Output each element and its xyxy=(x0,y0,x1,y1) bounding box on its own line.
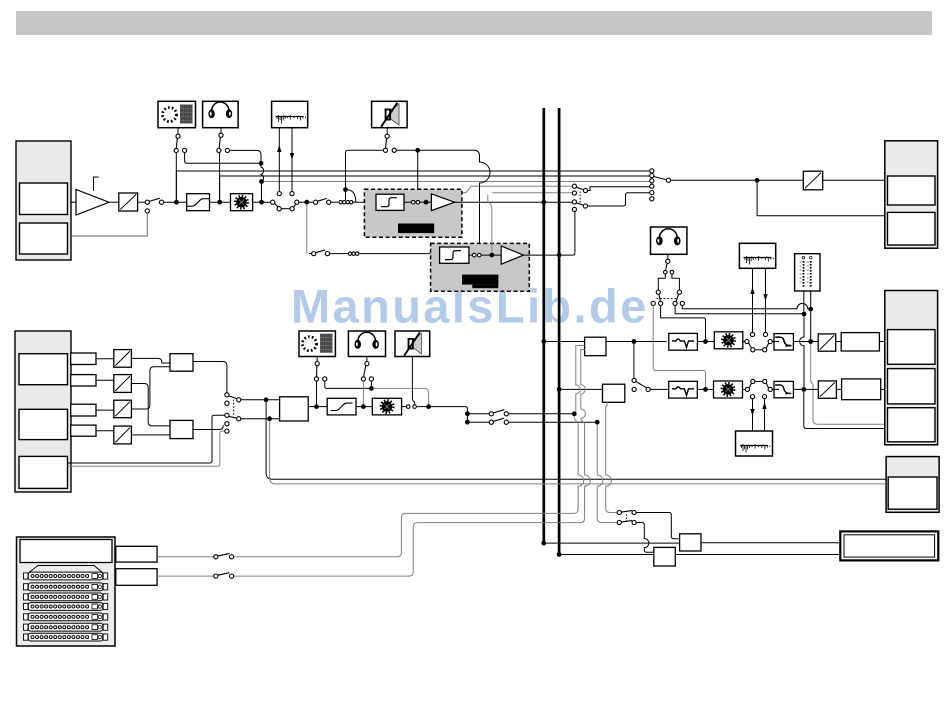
wire branch up to L2 xyxy=(219,176,221,200)
connector pair J2 pin 1 xyxy=(346,201,349,204)
volume block row 1 xyxy=(714,332,743,349)
wire V4 line amp 2 tap down to record selector xyxy=(606,402,617,512)
VU meter LED columns xyxy=(804,261,811,288)
wire xyxy=(481,254,501,256)
source selector common 1 xyxy=(237,398,241,402)
wire xyxy=(881,388,888,390)
wire tape2 line down xyxy=(306,205,308,254)
wire V1 row A to jack R1 xyxy=(234,416,584,557)
wire jack C line 2 to selector xyxy=(68,431,225,466)
switch S1 contact a xyxy=(145,200,149,204)
switch blade xyxy=(749,343,752,348)
record line contact xyxy=(277,192,281,196)
connector pair J2 pin 2 xyxy=(350,201,353,204)
wire rec amp 1 output to bus 1 xyxy=(455,201,542,203)
dial and grille icon 2 xyxy=(303,334,333,353)
gain control tap of V1 xyxy=(94,177,99,191)
column contact 4 xyxy=(650,184,654,188)
wire xyxy=(879,341,887,343)
wire xyxy=(561,388,602,390)
node record out 1 xyxy=(264,397,269,402)
rec amp 1 connector pin 2 xyxy=(416,200,420,204)
switch blade xyxy=(149,198,160,201)
node bus1 / line 1 xyxy=(541,200,546,205)
output block 1 jack B xyxy=(888,212,936,245)
wire pad C to mixer M1 xyxy=(131,367,170,409)
tape2 record contact xyxy=(750,395,754,399)
bus line 2 (right mixing bus) xyxy=(558,108,561,555)
switch S6 contact b xyxy=(392,148,396,152)
wire M2 to source selector xyxy=(193,425,223,429)
attenuator pad A xyxy=(114,350,132,368)
input block 2 jack C xyxy=(19,456,68,488)
column contact 3 xyxy=(650,179,654,183)
node row1 meter tap xyxy=(808,339,813,344)
wire xyxy=(356,406,372,408)
output attenuator pad xyxy=(803,171,822,190)
wire xyxy=(697,388,713,390)
line amp block 1 xyxy=(585,337,606,356)
panel perspective top xyxy=(29,566,103,573)
source selector contact 5 xyxy=(225,429,229,433)
headphones icon 1 xyxy=(209,102,232,118)
output block 1 xyxy=(885,141,938,248)
node monitor line 3 join xyxy=(703,339,708,344)
tone filter curve 1 xyxy=(672,339,694,348)
switch blade xyxy=(766,383,768,388)
tape1 play contact xyxy=(763,332,767,336)
row A switch contact a xyxy=(489,412,493,416)
tape1 switch contact a xyxy=(745,339,749,343)
output block 2 jack A xyxy=(888,330,936,365)
row2 selector common xyxy=(646,387,650,391)
wire meter A to row2 with hop xyxy=(800,316,804,387)
source selector contact 4 xyxy=(225,422,229,426)
rec amp 2 connector pin 1 xyxy=(472,253,476,257)
speaker jack contact xyxy=(385,134,389,138)
input block 1 jack A xyxy=(20,183,68,215)
wire to monitor switch R xyxy=(672,274,680,290)
tape1 switch contact d xyxy=(768,339,772,343)
wire curve to main line xyxy=(348,190,356,202)
wire box Q to recorder block xyxy=(675,554,840,556)
node bus2 bottom xyxy=(557,552,562,557)
switch blade xyxy=(294,204,296,207)
wire tape1 record up xyxy=(752,268,754,332)
switch S8 contact b xyxy=(323,377,327,381)
switch S3 contact a xyxy=(314,200,318,204)
switch S6 contact a xyxy=(383,148,387,152)
connector strip row 7 xyxy=(24,633,108,641)
phone jack 2 contact xyxy=(666,259,670,263)
input coupler 3 xyxy=(71,404,96,416)
tape1 switch contact c xyxy=(763,348,767,352)
wire to jack B xyxy=(71,213,147,236)
wire down to main line xyxy=(175,153,177,200)
wire row B xyxy=(470,421,490,423)
wire record selector pole 2 to box Q with hop xyxy=(636,523,654,553)
blacked-out label 2 xyxy=(462,275,498,285)
input block 2 jack A xyxy=(19,354,68,385)
low pass curve 1 xyxy=(775,337,791,345)
wire xyxy=(220,128,222,133)
record amplifier V2 xyxy=(431,194,454,211)
attenuator pad B xyxy=(114,375,132,393)
record amplifier unit 1 (dashed box) xyxy=(364,189,462,237)
switch blade xyxy=(218,573,230,576)
playback line contact xyxy=(290,192,294,196)
wire xyxy=(331,201,338,203)
low pass block 2 xyxy=(774,381,793,397)
wire box P to recorder block xyxy=(701,542,840,544)
connector strip row 4 xyxy=(24,603,108,611)
source selector common 2 xyxy=(237,417,241,421)
wire to selector contact xyxy=(546,201,572,203)
switch blade xyxy=(576,203,583,205)
switch blade xyxy=(229,416,237,418)
switch S1 contact c xyxy=(145,209,149,213)
node tape2 branch xyxy=(304,200,309,205)
input block 2 jack B xyxy=(19,409,68,439)
recorder block (bottom right) xyxy=(840,531,938,560)
attenuator pad row 1 xyxy=(818,334,836,351)
switch blade xyxy=(219,137,220,148)
switch blade xyxy=(766,343,768,348)
column contact 6 xyxy=(650,197,654,201)
switch S2 contact c xyxy=(290,207,294,211)
input coupler 4 xyxy=(71,425,96,436)
wire monitor line 2 xyxy=(675,306,802,314)
connector strip row 3 xyxy=(24,593,108,601)
selector SL contact 4 xyxy=(572,207,576,211)
wire xyxy=(261,184,263,200)
record amplifier unit 2 (dashed box) xyxy=(431,243,530,291)
connector panel header xyxy=(20,540,112,563)
switch blade xyxy=(316,250,326,253)
wire row A xyxy=(470,413,490,415)
wire net L4 (rec amp 1 tap) xyxy=(426,186,574,200)
wire row1 to output3 (gray) xyxy=(811,344,886,424)
tone filter block 2 xyxy=(669,381,698,398)
switch S2 contact d xyxy=(295,200,299,204)
output block 2 xyxy=(885,291,938,445)
gang link dashed xyxy=(657,298,679,300)
wire net L3 (aux line to selector) xyxy=(262,181,652,183)
wire xyxy=(308,406,327,408)
low pass block 1 xyxy=(774,334,793,350)
wire xyxy=(281,208,290,210)
node row 2 xyxy=(703,387,708,392)
wire pad D to mixer M2 xyxy=(131,434,170,436)
node row A / V1 xyxy=(572,411,577,416)
selector SL common 1 xyxy=(583,188,587,192)
connector pair J3 pin 3 xyxy=(355,252,358,255)
tape2 switch contact c xyxy=(763,379,767,383)
tape1 switch contact b xyxy=(751,348,755,352)
selector SL contact 3 xyxy=(572,200,576,204)
connector strip row 1 xyxy=(24,572,108,580)
monitor contact 2 xyxy=(673,301,677,305)
switch blade xyxy=(621,511,632,512)
volume control P1 knob xyxy=(235,196,248,209)
input block 1 (tuner unit) xyxy=(16,141,71,260)
switch blade xyxy=(318,198,327,201)
connector pair J3 pin 1 xyxy=(348,252,351,255)
wire xyxy=(164,201,187,203)
wire common1 to column xyxy=(588,187,650,191)
jack pair pin L xyxy=(664,270,668,274)
node row B / V3 xyxy=(595,420,600,425)
wire xyxy=(666,263,668,270)
mixer stage M2 xyxy=(170,420,193,438)
wire bus1 to box P xyxy=(546,542,679,544)
column contact 2 xyxy=(650,174,654,178)
switch blade xyxy=(229,396,237,399)
node main line / L1 branch xyxy=(174,200,179,205)
node mid chain 1 xyxy=(314,404,319,409)
wire to tape rows xyxy=(417,407,468,425)
tone filter block 1 xyxy=(669,333,698,350)
node bus1 / monitor row 1 xyxy=(541,339,546,344)
wire xyxy=(650,388,668,390)
wire record line 1 to output block 3 xyxy=(266,402,886,479)
input block 1 jack B xyxy=(20,223,68,254)
output driver block 2 xyxy=(842,379,881,400)
compressor block K1 xyxy=(187,194,210,211)
phones jack contact xyxy=(219,133,223,137)
panel jack R1 xyxy=(116,546,157,562)
input block 2 (multi source) xyxy=(15,331,71,492)
wire to node 371 xyxy=(325,381,369,388)
volume control block P1 xyxy=(231,194,253,211)
wire to node 261 xyxy=(185,153,259,164)
wire down to mid line xyxy=(316,381,318,404)
attenuator pad row 2 xyxy=(818,381,836,398)
mixer stage M1 xyxy=(170,354,193,372)
wire xyxy=(96,379,114,381)
arrow down (playback) xyxy=(290,153,294,160)
switch blade xyxy=(176,138,177,148)
level block inside rec amp 2 xyxy=(440,247,469,263)
source selector contact 2 xyxy=(225,401,229,405)
wire xyxy=(836,388,841,390)
switch blade xyxy=(493,410,504,413)
connector strip row 5 xyxy=(24,613,108,621)
node tape row B xyxy=(465,420,470,425)
wire down to mid line xyxy=(362,381,364,404)
wire rec amp 2 output to bus 2 xyxy=(524,254,558,256)
record selector contact 2b xyxy=(632,520,636,524)
tape waveform icon 2 xyxy=(744,256,774,265)
headphones icon 2 xyxy=(656,229,680,245)
wire jack C line 1 to selector xyxy=(68,415,225,463)
wire xyxy=(299,201,313,203)
R1 switch contact a xyxy=(214,555,218,559)
wire to output jack B xyxy=(757,183,885,216)
wire xyxy=(316,357,318,362)
wire xyxy=(370,381,372,386)
wire to node 261 xyxy=(230,150,261,161)
wire bus2 to box Q xyxy=(561,554,654,556)
wire to mixer 3 input 2 xyxy=(241,418,280,420)
blacked-out label 1 xyxy=(398,224,434,234)
wire xyxy=(96,358,114,360)
wire xyxy=(96,409,114,411)
output driver block 1 xyxy=(841,333,879,351)
record selector contact 2a xyxy=(617,520,621,524)
output block 2 jack B xyxy=(888,369,936,404)
output block 1 jack A xyxy=(888,176,936,205)
selector SL contact 1 xyxy=(572,184,576,188)
tape2 switch contact d xyxy=(768,387,772,391)
wire xyxy=(138,201,146,203)
node record out 2 xyxy=(267,416,272,421)
tape2 switch contact a xyxy=(745,387,749,391)
switch blade xyxy=(621,521,632,523)
switch blade xyxy=(275,203,278,207)
wire xyxy=(772,388,779,390)
mic jack 2 contact xyxy=(315,362,319,366)
gang link dashed xyxy=(233,400,235,417)
node bus2 / monitor row 2 xyxy=(557,387,562,392)
wire row A to node xyxy=(509,413,573,415)
wire R2 out xyxy=(157,575,214,577)
wire xyxy=(743,388,746,390)
level curve rec amp 1 xyxy=(381,198,397,207)
volume knob row 2 xyxy=(722,383,735,396)
wire with hop down to record amp 2 xyxy=(420,150,490,253)
switch blade xyxy=(659,294,660,301)
wire xyxy=(71,201,76,203)
arrow up play tape2 xyxy=(762,402,766,409)
R2 switch contact b xyxy=(230,574,234,578)
wire row2 to output3 (black) xyxy=(804,392,886,429)
arrow down play tape1 xyxy=(763,294,767,301)
wire up to selector contact d xyxy=(561,212,575,256)
wire xyxy=(697,341,714,343)
connector strip row 6 xyxy=(24,623,108,631)
monitor contact 0 xyxy=(651,301,655,305)
icon box headphones 2 xyxy=(651,227,687,254)
wire into record amp 1 xyxy=(353,201,376,203)
switch blade xyxy=(576,187,583,189)
node main line / L2 branch xyxy=(217,200,222,205)
wire xyxy=(177,128,179,134)
node output split xyxy=(755,178,760,183)
row2 selector contact b xyxy=(632,387,636,391)
wire net L1 (mic line to selector) xyxy=(176,170,651,172)
connector pair J3 pin 2 xyxy=(352,252,355,255)
mic jack contact xyxy=(176,134,180,138)
node L3 start xyxy=(259,179,264,184)
compressor K1 curve xyxy=(187,199,209,207)
panel jack R2 xyxy=(116,569,157,586)
jack pair pin R xyxy=(670,270,674,274)
connector pair J1 pin 1 xyxy=(339,201,342,204)
source selector contact 3 xyxy=(225,413,229,417)
wire meter B to row1 xyxy=(810,311,812,339)
selector SL contact 2 xyxy=(572,191,576,195)
switch blade xyxy=(218,553,230,556)
switch S7 contact b xyxy=(325,252,329,256)
node mid chain 3 xyxy=(426,404,431,409)
wire xyxy=(469,254,472,256)
column common xyxy=(666,178,670,182)
connector panel block xyxy=(17,537,116,646)
wire xyxy=(793,388,818,390)
arrow up (record) xyxy=(277,145,281,152)
mixer stage M3 xyxy=(280,397,309,421)
wire meter feed B xyxy=(810,291,812,307)
node row1 to row2 switch xyxy=(632,339,637,344)
switch S2 contact b xyxy=(277,207,281,211)
low pass curve 2 xyxy=(775,385,791,393)
wire xyxy=(396,149,415,151)
wire branch up to L1 xyxy=(175,171,177,200)
wire V3 row B down to record selector xyxy=(597,425,617,523)
tape2 play contact xyxy=(762,395,766,399)
attenuator pad 1 xyxy=(119,193,138,211)
wire into record amp 2 xyxy=(359,253,439,255)
node main line / L3 branch xyxy=(259,200,264,205)
wire down to main line xyxy=(219,153,221,200)
node meter B xyxy=(808,307,813,312)
connector pair J1 pin 2 xyxy=(343,201,346,204)
attenuator pad C xyxy=(114,400,132,418)
wire record line xyxy=(278,128,280,192)
compressor block K2 xyxy=(327,398,356,415)
record selector contact 1b xyxy=(632,510,636,514)
VU meter block xyxy=(795,254,820,291)
attenuator pad D xyxy=(114,426,132,444)
wire record selector pole 1 to box P xyxy=(636,513,679,539)
node speaker join xyxy=(343,187,348,192)
muted speaker icon 1 xyxy=(381,103,399,127)
tone filter curve 2 xyxy=(672,387,694,396)
input coupler 2 xyxy=(71,375,96,386)
wire row B to node xyxy=(509,421,596,423)
gang link dashed xyxy=(626,514,628,520)
wire xyxy=(253,201,271,203)
wire row1 down to selector xyxy=(633,344,635,378)
node tape row A xyxy=(465,411,470,416)
record coupler P xyxy=(680,534,701,551)
wire V1 line-amp tap 1 down xyxy=(576,346,585,412)
wire to mixer 3 input 1 xyxy=(241,399,280,401)
wire monitor line 1 with hop xyxy=(682,303,810,308)
switch S2 contact a xyxy=(271,200,275,204)
switch S4 contact b xyxy=(183,148,187,152)
wire record line 2 to output block 3 xyxy=(270,421,887,484)
switch S8 contact a xyxy=(314,377,318,381)
wire to output attenuator xyxy=(671,179,804,181)
node rec amp 2 tap xyxy=(489,253,494,258)
wire xyxy=(793,341,818,343)
monitor contact 3 xyxy=(680,301,684,305)
wire bridge xyxy=(755,380,763,382)
tape1 record contact xyxy=(750,332,754,336)
wire xyxy=(345,192,347,200)
wire xyxy=(404,201,411,203)
icon box headphones 1 xyxy=(203,101,239,127)
switch blade xyxy=(749,383,751,388)
wire R1 out xyxy=(157,556,214,558)
switch S5 contact a xyxy=(217,148,221,152)
source selector contact 1 xyxy=(225,393,229,397)
wire rec amp 2 tap up with jog xyxy=(488,195,492,253)
icon box tape deck 3 xyxy=(736,431,773,456)
monitor contact 1 xyxy=(659,301,663,305)
